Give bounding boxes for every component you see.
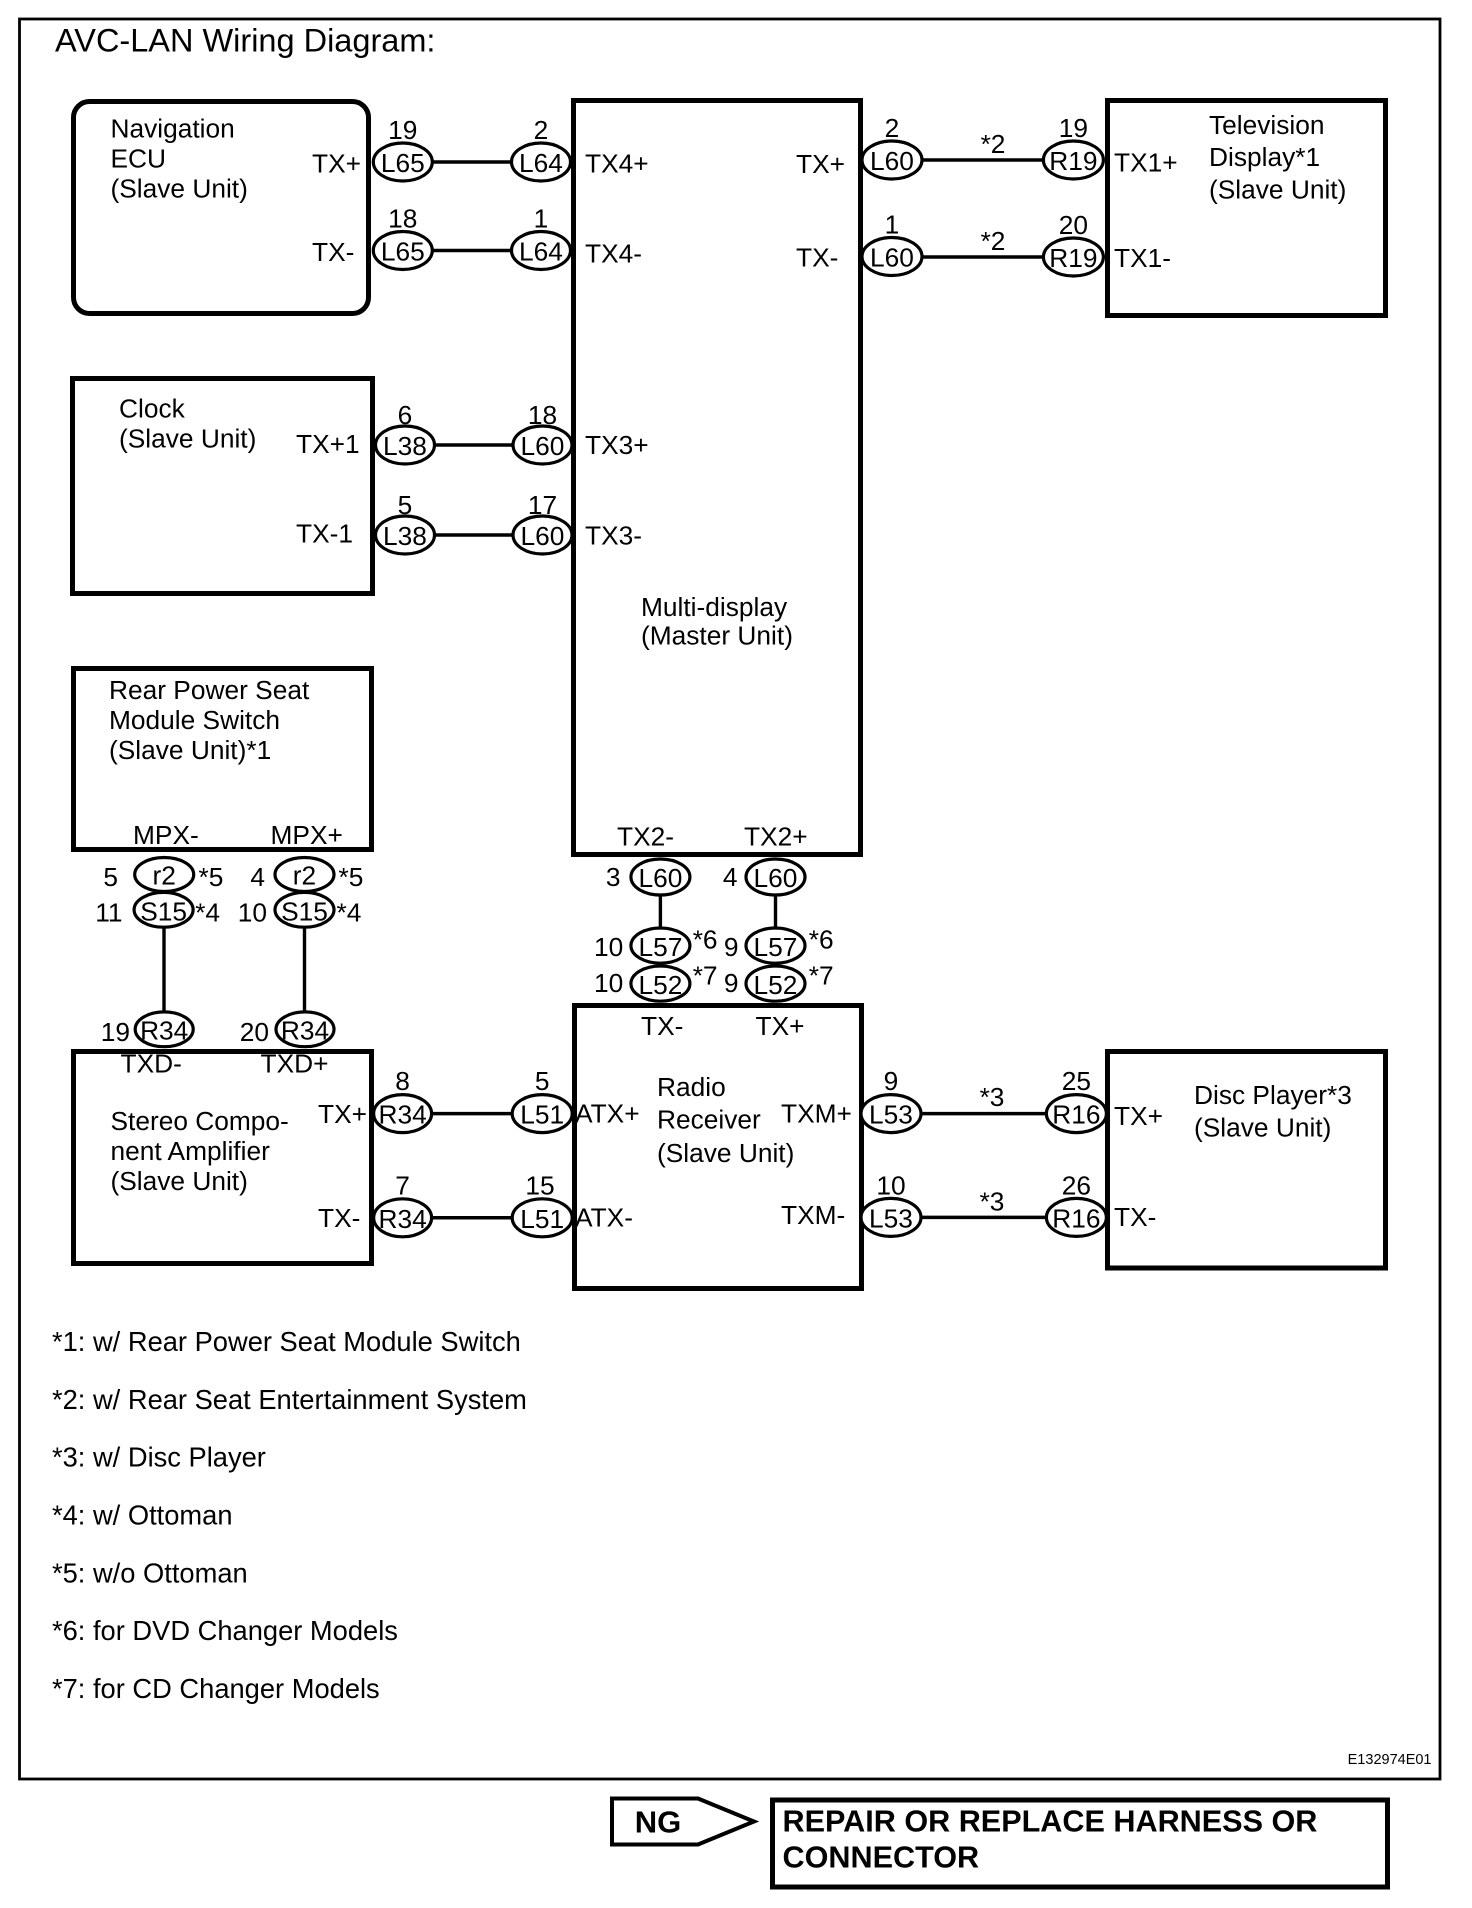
- svg-text:17: 17: [528, 490, 557, 520]
- connector R34 pin 20 (TXD+): [240, 1012, 334, 1047]
- NG arrow tag: [612, 1799, 754, 1845]
- svg-text:Rear Power Seat: Rear Power Seat: [109, 675, 310, 705]
- unit box Television Display: [1108, 101, 1386, 316]
- svg-text:20: 20: [240, 1017, 269, 1047]
- svg-text:TX-: TX-: [796, 243, 838, 273]
- wire L60-R19 (TX+/TX1+): [920, 158, 1044, 162]
- svg-text:L65: L65: [381, 237, 425, 267]
- connector L38 pin 6: [376, 400, 435, 464]
- connector L51 pin 5 (ATX+): [512, 1066, 572, 1133]
- svg-text:L51: L51: [520, 1204, 564, 1234]
- svg-text:L53: L53: [869, 1203, 913, 1233]
- svg-text:TX+: TX+: [756, 1011, 805, 1041]
- svg-text:*3: *3: [980, 1082, 1005, 1112]
- svg-text:26: 26: [1062, 1171, 1091, 1201]
- svg-text:25: 25: [1062, 1066, 1091, 1096]
- connector L52 pin 9: [724, 961, 834, 1002]
- svg-text:TX-: TX-: [318, 1203, 360, 1233]
- wire L60-L57 left (TX2-): [659, 894, 662, 929]
- connector L38 pin 5: [376, 490, 435, 554]
- wire L60-L57 right (TX2+): [774, 894, 777, 929]
- wire L53-R16 (TXM-/TX-): [921, 1216, 1047, 1220]
- connector L60 pin 2 (multi right top): [862, 113, 922, 179]
- svg-text:ATX+: ATX+: [575, 1099, 640, 1129]
- svg-text:L57: L57: [638, 932, 682, 962]
- connector L57 pin 10: [594, 924, 718, 963]
- connector R34 pin 19 (TXD-): [101, 1012, 193, 1047]
- svg-text:*7: *7: [693, 961, 718, 991]
- svg-text:TXD-: TXD-: [121, 1049, 182, 1079]
- connector L53 pin 9 (TXM+): [861, 1066, 921, 1133]
- svg-text:L38: L38: [383, 521, 427, 551]
- svg-text:19: 19: [101, 1017, 130, 1047]
- svg-text:L64: L64: [519, 237, 563, 267]
- svg-text:(Slave Unit): (Slave Unit): [1209, 175, 1346, 205]
- svg-text:20: 20: [1059, 210, 1088, 240]
- svg-text:10: 10: [876, 1171, 905, 1201]
- svg-text:L52: L52: [638, 970, 682, 1000]
- svg-text:5: 5: [535, 1066, 550, 1096]
- connector L60 pin 3 (TX2-): [606, 859, 690, 895]
- connector R19 pin 20: [1043, 210, 1103, 276]
- svg-text:TX-: TX-: [1114, 1202, 1156, 1232]
- svg-text:4: 4: [250, 862, 265, 892]
- connector L65 pin 18: [373, 204, 432, 270]
- svg-text:9: 9: [884, 1066, 899, 1096]
- svg-text:R16: R16: [1052, 1203, 1100, 1233]
- svg-text:R34: R34: [140, 1016, 188, 1046]
- svg-text:Receiver: Receiver: [657, 1105, 761, 1135]
- svg-text:19: 19: [1059, 113, 1088, 143]
- svg-text:(Slave Unit): (Slave Unit): [1194, 1113, 1331, 1143]
- unit box Stereo Component Amplifier: [74, 1049, 372, 1264]
- wire L38-L60 (TX-1/TX3-): [435, 533, 514, 537]
- svg-text:(Slave Unit): (Slave Unit): [111, 174, 248, 204]
- svg-text:S15: S15: [281, 897, 328, 927]
- svg-text:TX2+: TX2+: [744, 822, 808, 852]
- svg-text:L60: L60: [521, 431, 565, 461]
- connector r2 pin 5 (MPX-): [103, 858, 223, 893]
- svg-text:(Slave Unit): (Slave Unit): [119, 423, 256, 453]
- svg-text:*4: w/ Ottoman: *4: w/ Ottoman: [52, 1500, 233, 1531]
- svg-text:TXM+: TXM+: [781, 1099, 852, 1129]
- svg-text:7: 7: [395, 1171, 410, 1201]
- svg-text:L60: L60: [870, 146, 914, 176]
- svg-text:*2: *2: [981, 129, 1006, 159]
- svg-text:R34: R34: [281, 1016, 329, 1046]
- svg-text:TX+: TX+: [1114, 1101, 1163, 1131]
- wire R34-L51 (TX+/ATX+): [432, 1112, 513, 1116]
- svg-text:MPX-: MPX-: [133, 820, 199, 850]
- connector r2 pin 4 (MPX+): [250, 858, 363, 893]
- svg-text:18: 18: [388, 204, 417, 234]
- svg-text:*5: *5: [199, 862, 224, 892]
- svg-text:r2: r2: [153, 861, 176, 891]
- svg-text:TX1+: TX1+: [1114, 148, 1178, 178]
- svg-text:TX+1: TX+1: [296, 429, 360, 459]
- svg-text:11: 11: [95, 898, 122, 928]
- svg-text:TX+: TX+: [318, 1099, 367, 1129]
- connector S15 pin 10: [238, 892, 362, 927]
- svg-text:TX-1: TX-1: [296, 519, 353, 549]
- svg-text:*3: w/ Disc Player: *3: w/ Disc Player: [52, 1442, 266, 1473]
- connector L57 pin 9: [724, 924, 834, 963]
- connector L60 pin 17 (TX3-): [513, 490, 572, 554]
- connector R19 pin 19: [1043, 113, 1103, 179]
- svg-text:L57: L57: [754, 932, 798, 962]
- svg-text:Navigation: Navigation: [111, 114, 235, 144]
- svg-text:REPAIR OR REPLACE HARNESS OR: REPAIR OR REPLACE HARNESS OR: [783, 1804, 1318, 1838]
- svg-text:3: 3: [606, 862, 621, 892]
- result box REPAIR OR REPLACE HARNESS OR CONNECTOR: [773, 1800, 1388, 1887]
- svg-text:Radio: Radio: [657, 1072, 726, 1102]
- svg-text:*7: *7: [809, 961, 834, 991]
- svg-text:Stereo Compo-: Stereo Compo-: [111, 1106, 289, 1136]
- svg-text:*2: w/ Rear Seat Entertainment: *2: w/ Rear Seat Entertainment System: [52, 1384, 527, 1415]
- connector L65 pin 19: [373, 115, 432, 181]
- svg-text:10: 10: [594, 932, 623, 962]
- svg-text:L60: L60: [754, 863, 798, 893]
- svg-text:E132974E01: E132974E01: [1348, 1752, 1432, 1768]
- svg-text:TX3-: TX3-: [585, 521, 642, 551]
- svg-text:6: 6: [398, 400, 413, 430]
- svg-text:9: 9: [724, 968, 739, 998]
- connector L51 pin 15 (ATX-): [512, 1171, 572, 1237]
- svg-text:TX1-: TX1-: [1114, 243, 1171, 273]
- unit box Multi-display (Master Unit): [574, 101, 861, 855]
- svg-text:MPX+: MPX+: [271, 820, 343, 850]
- svg-text:TXM-: TXM-: [781, 1200, 845, 1230]
- wire L53-R16 (TXM+/TX+): [921, 1112, 1047, 1116]
- svg-text:NG: NG: [635, 1805, 682, 1840]
- svg-text:*3: *3: [980, 1187, 1005, 1217]
- svg-text:TX-: TX-: [641, 1011, 683, 1041]
- svg-text:CONNECTOR: CONNECTOR: [783, 1841, 980, 1875]
- svg-text:ECU: ECU: [111, 144, 167, 174]
- svg-text:TX4-: TX4-: [585, 239, 642, 269]
- svg-text:AVC-LAN Wiring Diagram:: AVC-LAN Wiring Diagram:: [55, 23, 435, 59]
- wire L60-R19 (TX-/TX1-): [920, 255, 1044, 259]
- svg-text:L38: L38: [383, 431, 427, 461]
- svg-text:(Slave Unit)*1: (Slave Unit)*1: [109, 735, 271, 765]
- svg-text:*6: for DVD Changer Models: *6: for DVD Changer Models: [52, 1615, 398, 1646]
- svg-text:Multi-display: Multi-display: [641, 592, 788, 622]
- connector R34 pin 8 (TX+): [374, 1066, 432, 1133]
- svg-text:Display*1: Display*1: [1209, 142, 1320, 172]
- connector L53 pin 10 (TXM-): [861, 1171, 921, 1237]
- svg-text:S15: S15: [140, 897, 187, 927]
- svg-text:TX+: TX+: [796, 149, 845, 179]
- svg-text:Disc Player*3: Disc Player*3: [1194, 1080, 1352, 1110]
- connector S15 pin 11: [95, 892, 220, 927]
- svg-text:R16: R16: [1052, 1100, 1100, 1130]
- svg-text:*5: w/o Ottoman: *5: w/o Ottoman: [52, 1557, 248, 1588]
- svg-text:*5: *5: [339, 862, 364, 892]
- svg-text:Module Switch: Module Switch: [109, 705, 280, 735]
- svg-text:9: 9: [724, 932, 739, 962]
- svg-text:5: 5: [103, 862, 118, 892]
- connector L60 pin 4 (TX2+): [723, 859, 805, 895]
- svg-text:19: 19: [388, 115, 417, 145]
- unit box Disc Player: [1108, 1052, 1386, 1269]
- unit box Clock: [73, 379, 373, 594]
- connector L60 pin 18 (TX3+): [513, 400, 572, 464]
- svg-text:*6: *6: [809, 924, 834, 954]
- svg-text:4: 4: [723, 862, 738, 892]
- svg-text:5: 5: [398, 490, 413, 520]
- connector L64 pin 1: [512, 204, 571, 270]
- svg-text:*7: for CD Changer Models: *7: for CD Changer Models: [52, 1673, 380, 1704]
- svg-text:18: 18: [528, 400, 557, 430]
- svg-text:L52: L52: [754, 970, 798, 1000]
- wire S15-R34 right (MPX+): [303, 926, 306, 1013]
- wire L38-L60 (TX+1/TX3+): [435, 443, 514, 447]
- svg-text:TX4+: TX4+: [585, 149, 649, 179]
- unit box Radio Receiver: [575, 1006, 862, 1289]
- svg-text:2: 2: [534, 115, 549, 145]
- svg-text:TX+: TX+: [312, 149, 361, 179]
- wire S15-R34 left (MPX-): [162, 926, 165, 1013]
- wire L65-L64 (TX-/TX4-): [432, 249, 512, 253]
- wire R34-L51 (TX-/ATX-): [432, 1216, 513, 1220]
- connector R34 pin 7 (TX-): [374, 1171, 432, 1237]
- svg-text:TX-: TX-: [312, 237, 354, 267]
- svg-text:Clock: Clock: [119, 394, 186, 424]
- svg-text:ATX-: ATX-: [575, 1203, 633, 1233]
- unit box Navigation ECU: [74, 102, 369, 314]
- connector R16 pin 26 (TX-): [1046, 1171, 1106, 1237]
- connector R16 pin 25 (TX+): [1046, 1066, 1106, 1133]
- svg-text:L64: L64: [519, 148, 563, 178]
- svg-text:*2: *2: [981, 226, 1006, 256]
- connector L52 pin 10: [594, 961, 718, 1002]
- wire L65-L64 (TX+/TX4+): [432, 160, 512, 164]
- svg-text:(Slave Unit): (Slave Unit): [657, 1138, 794, 1168]
- svg-text:15: 15: [525, 1171, 554, 1201]
- connector L60 pin 1 (multi right bottom): [862, 210, 922, 276]
- svg-text:(Slave Unit): (Slave Unit): [111, 1166, 248, 1196]
- svg-text:L60: L60: [870, 243, 914, 273]
- svg-text:R34: R34: [378, 1100, 426, 1130]
- connector L64 pin 2: [512, 115, 571, 181]
- svg-text:*6: *6: [693, 924, 718, 954]
- svg-text:*4: *4: [195, 898, 220, 928]
- svg-text:Television: Television: [1209, 110, 1324, 140]
- svg-text:10: 10: [238, 898, 267, 928]
- svg-text:R34: R34: [378, 1204, 426, 1234]
- svg-text:L53: L53: [869, 1100, 913, 1130]
- svg-text:*4: *4: [337, 898, 362, 928]
- svg-text:TXD+: TXD+: [261, 1049, 329, 1079]
- svg-text:*1: w/ Rear Power Seat Module: *1: w/ Rear Power Seat Module Switch: [52, 1326, 521, 1357]
- svg-text:r2: r2: [293, 861, 316, 891]
- svg-text:TX2-: TX2-: [617, 822, 674, 852]
- svg-text:1: 1: [534, 204, 549, 234]
- svg-text:2: 2: [885, 113, 900, 143]
- unit box Rear Power Seat Module Switch: [74, 669, 372, 851]
- svg-text:TX3+: TX3+: [585, 430, 649, 460]
- svg-text:L51: L51: [520, 1100, 564, 1130]
- svg-text:R19: R19: [1049, 146, 1097, 176]
- svg-text:8: 8: [395, 1066, 410, 1096]
- svg-text:(Master Unit): (Master Unit): [641, 621, 793, 651]
- svg-text:1: 1: [885, 210, 900, 240]
- svg-text:L60: L60: [521, 521, 565, 551]
- svg-text:L65: L65: [381, 148, 425, 178]
- svg-text:R19: R19: [1049, 243, 1097, 273]
- svg-text:L60: L60: [638, 863, 682, 893]
- svg-text:nent Amplifier: nent Amplifier: [111, 1136, 271, 1166]
- svg-text:10: 10: [594, 968, 623, 998]
